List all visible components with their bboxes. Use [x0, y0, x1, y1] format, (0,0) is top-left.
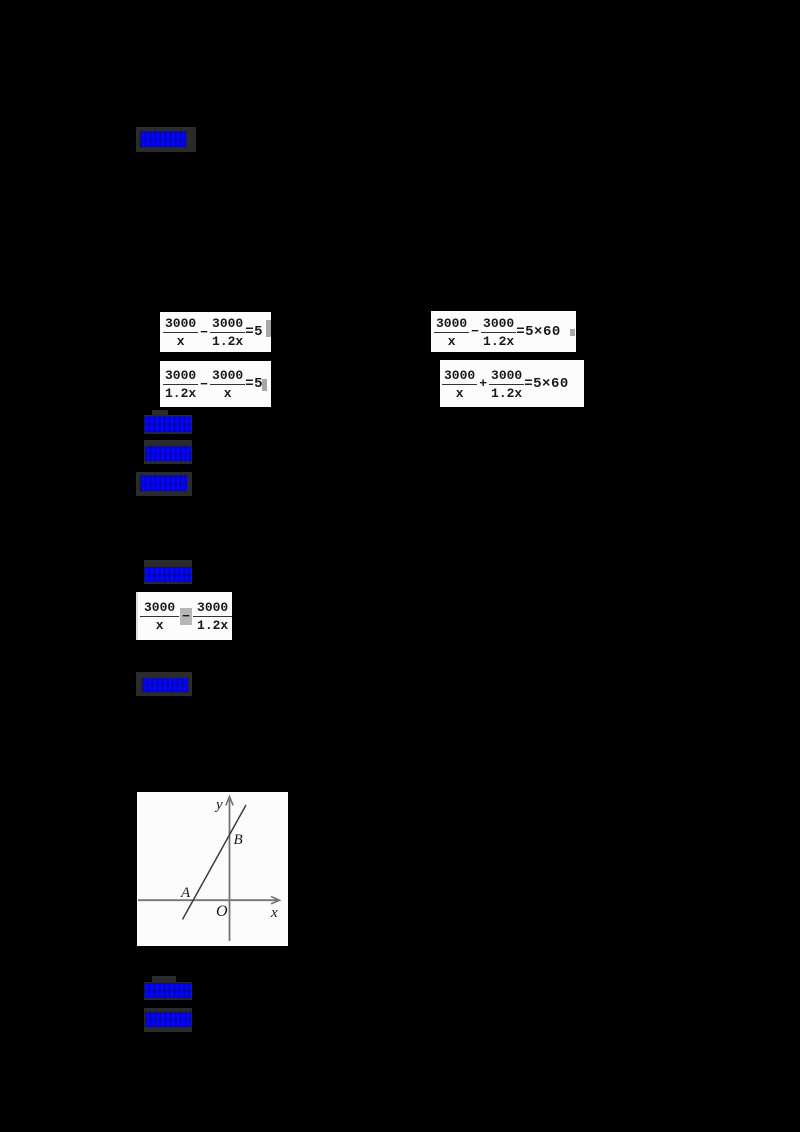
svg-text:x: x — [270, 905, 278, 921]
svg-text:O: O — [216, 903, 228, 920]
svg-text:y: y — [214, 797, 223, 813]
svg-text:B: B — [234, 832, 243, 848]
svg-text:A: A — [180, 885, 191, 901]
